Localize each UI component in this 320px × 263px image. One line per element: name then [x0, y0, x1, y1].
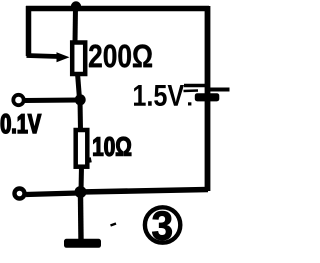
label 10 ohm	[94, 137, 132, 156]
battery B1 bottom plate	[195, 93, 220, 101]
node junction top	[71, 1, 81, 11]
label 1.5V	[134, 85, 184, 106]
wire left loop bottom	[27, 56, 59, 57]
wire left loop vertical	[26, 6, 32, 56]
wire right vertical	[205, 6, 211, 191]
stray dash mark	[111, 224, 117, 226]
wire middle node to R2 top	[78, 99, 84, 130]
label comma before 10 ohm	[90, 158, 91, 163]
battery B1 top plate second stroke	[184, 89, 199, 92]
wire lower terminal to bottom node	[26, 193, 78, 195]
wire R1 bottom to middle node	[78, 73, 80, 99]
figure number circle 3	[145, 207, 180, 242]
node bottom junction	[75, 186, 87, 198]
battery B1 top plate right stroke	[210, 88, 230, 92]
battery B1 top plate left stroke	[184, 84, 205, 88]
terminal upper input	[13, 95, 23, 105]
wire upper terminal to middle node	[25, 98, 78, 104]
wiper arrow into R1	[57, 52, 70, 62]
node middle junction	[75, 94, 86, 105]
wire junction to R1 top	[73, 7, 79, 43]
wire top rail	[26, 6, 209, 12]
resistor R1 200 ohm box	[72, 43, 85, 75]
wire bottom rail	[80, 190, 208, 193]
label 200 ohm	[89, 45, 152, 68]
wire ground stem	[78, 196, 84, 240]
label period after 1.5V	[188, 102, 191, 105]
figure number 3 glyph	[152, 211, 171, 240]
label 0.1V	[1, 114, 41, 133]
resistor R2 10 ohm box	[76, 130, 88, 167]
terminal lower input	[15, 189, 25, 199]
wire R2 bottom to bottom node	[79, 166, 85, 192]
ground symbol bar	[64, 239, 101, 248]
